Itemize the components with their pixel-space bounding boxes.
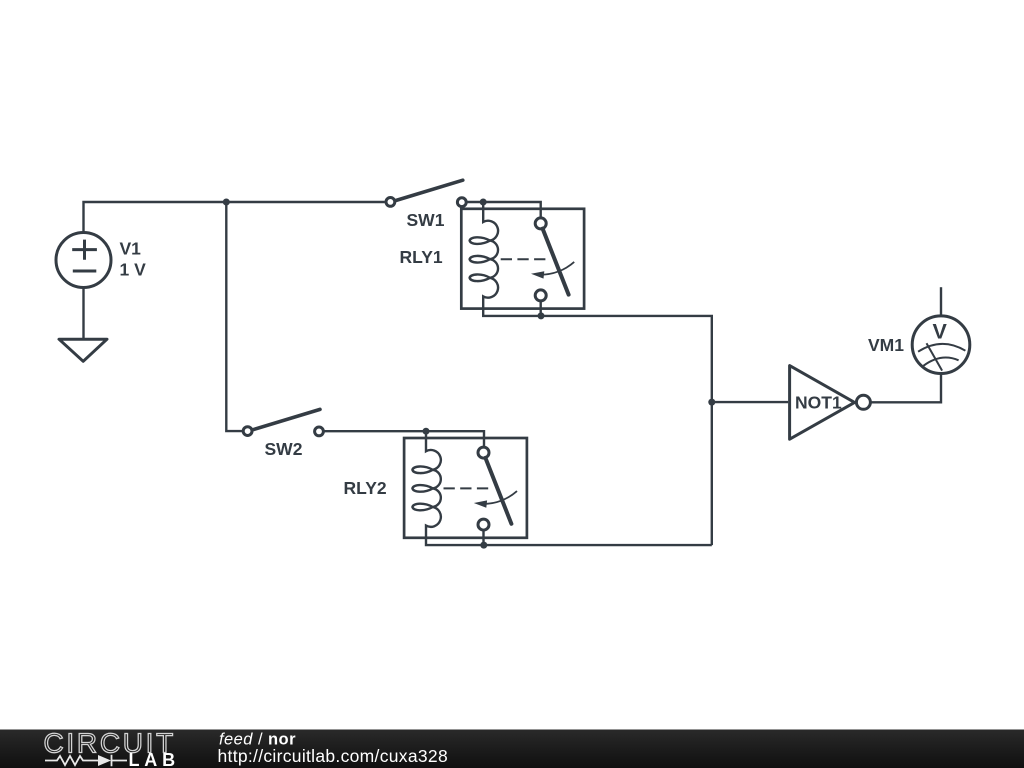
voltage source V1 [56, 233, 111, 288]
svg-text:http://circuitlab.com/cuxa328: http://circuitlab.com/cuxa328 [218, 746, 448, 766]
node junction top [223, 199, 230, 206]
wire bus to NOT1 [712, 401, 788, 403]
wire V1 to ground [82, 288, 84, 339]
node junction coil RLY2 [423, 428, 430, 435]
switch SW2 [243, 409, 323, 435]
footer bar [0, 730, 1024, 768]
svg-text:V1: V1 [120, 238, 142, 258]
node junction bus [708, 399, 715, 406]
relay RLY2 [404, 431, 527, 548]
wire SW1 to RLY1 [466, 202, 541, 218]
switch SW1 [386, 180, 466, 206]
gate NOT1 [790, 366, 855, 440]
svg-text:RLY1: RLY1 [400, 247, 443, 267]
svg-text:NOT1: NOT1 [795, 392, 842, 412]
wire SW2 to RLY2 [323, 431, 484, 447]
logo resistor-diode [45, 755, 127, 766]
relay RLY1 [461, 202, 584, 319]
wire top from V1 to SW1 [84, 202, 385, 232]
wire RLY2 bottom to right bus [484, 544, 712, 546]
svg-text:1 V: 1 V [120, 260, 147, 280]
svg-text:RLY2: RLY2 [344, 478, 387, 498]
svg-text:LAB: LAB [129, 750, 180, 768]
svg-text:VM1: VM1 [868, 335, 904, 355]
voltmeter VM1 [912, 316, 970, 374]
node junction coil RLY1 [480, 199, 487, 206]
svg-text:SW2: SW2 [265, 439, 303, 459]
ground [59, 339, 107, 361]
wire NOT1 to VM1 [871, 374, 941, 403]
svg-text:V: V [933, 320, 948, 344]
wire VM1 top stub [940, 287, 942, 316]
wire left vertical to SW2 [226, 202, 242, 431]
wire RLY1 bottom to right bus [541, 316, 712, 545]
svg-text:SW1: SW1 [407, 210, 445, 230]
